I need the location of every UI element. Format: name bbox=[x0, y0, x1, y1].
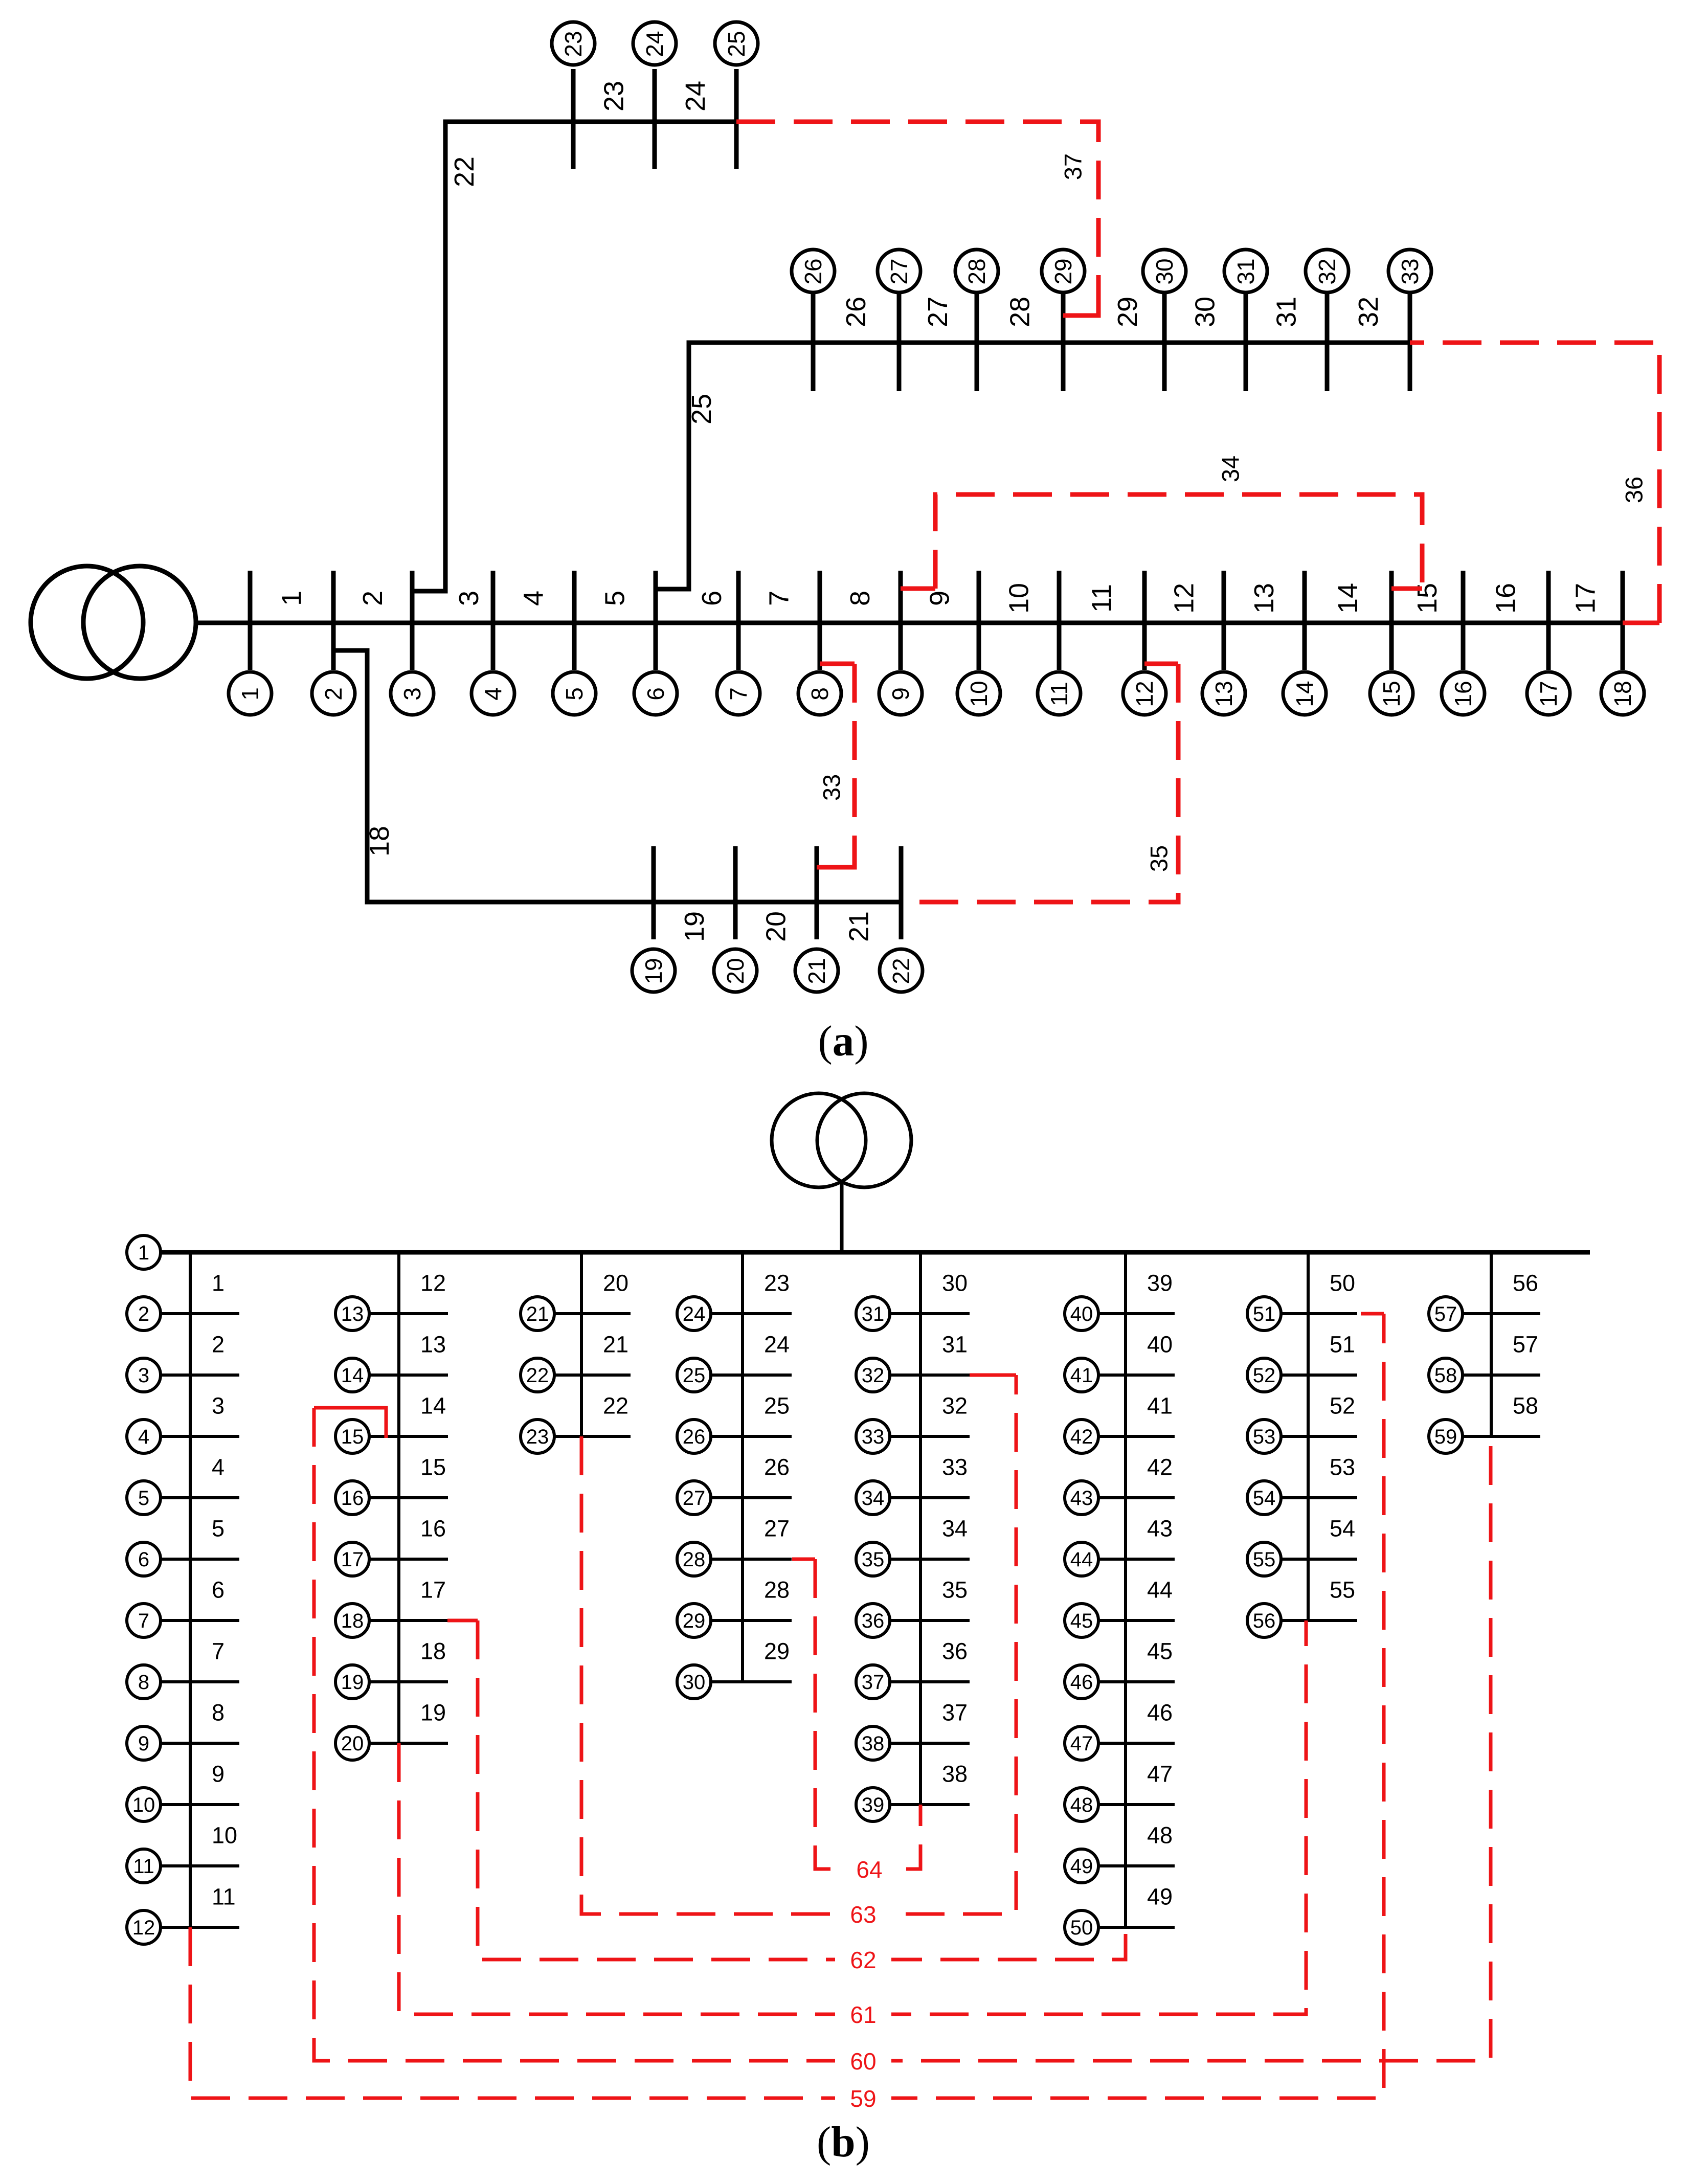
bus 39 tick bbox=[889, 1803, 970, 1806]
svg-text:32: 32 bbox=[942, 1393, 968, 1419]
svg-text:3: 3 bbox=[454, 591, 484, 606]
svg-text:20: 20 bbox=[722, 958, 749, 984]
svg-text:22: 22 bbox=[888, 958, 914, 984]
bus 28 circle bbox=[955, 250, 998, 292]
bus 53 tick bbox=[1281, 1435, 1357, 1438]
bus 26 circle bbox=[792, 250, 835, 292]
bus 29 circle bbox=[1042, 250, 1085, 292]
bus 23 tick bbox=[571, 69, 576, 169]
transformer T2 (part b) bbox=[772, 1093, 866, 1187]
svg-text:52: 52 bbox=[1330, 1393, 1355, 1419]
feeder vertical (buses 57-59) bbox=[1490, 1252, 1493, 1436]
svg-text:3: 3 bbox=[138, 1364, 149, 1387]
bus 23 tick bbox=[554, 1435, 631, 1438]
svg-text:12: 12 bbox=[132, 1917, 155, 1939]
svg-text:16: 16 bbox=[341, 1487, 364, 1510]
bus 17 circle bbox=[1527, 672, 1570, 715]
svg-text:11: 11 bbox=[133, 1855, 154, 1878]
bus 11 tick bbox=[160, 1864, 239, 1867]
svg-text:26: 26 bbox=[764, 1454, 790, 1480]
bus 12 tick bbox=[160, 1926, 239, 1929]
svg-text:43: 43 bbox=[1070, 1487, 1093, 1510]
svg-text:33: 33 bbox=[818, 774, 845, 801]
svg-text:31: 31 bbox=[1271, 297, 1302, 327]
bus 9 circle bbox=[127, 1726, 161, 1760]
svg-text:30: 30 bbox=[1151, 258, 1178, 284]
bus 16 circle bbox=[335, 1481, 369, 1515]
svg-text:1: 1 bbox=[212, 1270, 224, 1296]
bus 16 circle bbox=[1442, 672, 1485, 715]
bus 12 circle bbox=[1123, 672, 1166, 715]
bus 24 circle bbox=[677, 1297, 711, 1331]
svg-text:23: 23 bbox=[560, 31, 587, 57]
bus 31 circle bbox=[1224, 250, 1267, 292]
bus 4 circle bbox=[127, 1420, 161, 1453]
svg-text:44: 44 bbox=[1070, 1548, 1093, 1571]
bus 2 tick bbox=[160, 1312, 239, 1315]
bus 43 circle bbox=[1065, 1481, 1098, 1515]
tie line 35 dashed run bbox=[901, 664, 1178, 902]
main feeder line buses 1-18 bbox=[196, 621, 1623, 625]
svg-text:21: 21 bbox=[603, 1332, 628, 1358]
bus 18 tick bbox=[369, 1619, 448, 1622]
svg-text:18: 18 bbox=[420, 1638, 446, 1664]
bus 30 tick bbox=[710, 1680, 792, 1683]
bus 7 circle bbox=[127, 1604, 161, 1637]
svg-text:54: 54 bbox=[1253, 1487, 1276, 1510]
bus 36 circle bbox=[856, 1604, 890, 1637]
svg-text:18: 18 bbox=[341, 1610, 364, 1632]
svg-text:5: 5 bbox=[561, 687, 588, 701]
svg-text:1: 1 bbox=[237, 687, 263, 701]
feeder vertical (buses 51-56) bbox=[1307, 1252, 1310, 1620]
svg-text:7: 7 bbox=[764, 591, 795, 606]
svg-text:37: 37 bbox=[862, 1671, 885, 1694]
bus 41 circle bbox=[1065, 1358, 1098, 1392]
bus 34 tick bbox=[889, 1496, 970, 1499]
bus 2 circle bbox=[312, 672, 355, 715]
bus 55 circle bbox=[1247, 1542, 1281, 1576]
bus 3 tick bbox=[160, 1374, 239, 1377]
bus 19 circle bbox=[335, 1665, 369, 1699]
svg-text:22: 22 bbox=[526, 1364, 549, 1387]
bus 13 tick bbox=[1222, 571, 1226, 670]
bus 56 tick bbox=[1281, 1619, 1357, 1622]
bus 31 tick bbox=[1244, 291, 1248, 391]
bus 28 circle bbox=[677, 1542, 711, 1576]
bus 33 circle bbox=[1388, 250, 1431, 292]
bus 7 tick bbox=[160, 1619, 239, 1622]
bus 31 tick bbox=[889, 1312, 970, 1315]
bus 20 tick bbox=[733, 846, 738, 939]
svg-text:6: 6 bbox=[138, 1548, 149, 1571]
svg-text:17: 17 bbox=[1570, 583, 1601, 614]
bus 22 tick bbox=[899, 846, 904, 939]
svg-text:58: 58 bbox=[1513, 1393, 1538, 1419]
svg-text:10: 10 bbox=[212, 1822, 237, 1849]
bus 59 circle bbox=[1429, 1420, 1463, 1453]
tie line 62 stub at bus 18 bbox=[447, 1619, 478, 1623]
feeder vertical (buses 24-30) bbox=[741, 1252, 744, 1682]
bus 13 circle bbox=[335, 1297, 369, 1331]
svg-text:7: 7 bbox=[138, 1610, 149, 1632]
bus 19 circle bbox=[632, 949, 675, 992]
svg-text:8: 8 bbox=[806, 687, 833, 701]
bus 32 tick bbox=[1325, 291, 1330, 391]
bus 38 circle bbox=[856, 1726, 890, 1760]
bus 46 tick bbox=[1098, 1680, 1175, 1683]
branch 22 line bus3 to feeder 23-25 bbox=[412, 122, 736, 591]
bus 21 circle bbox=[795, 949, 838, 992]
svg-text:13: 13 bbox=[420, 1332, 446, 1358]
svg-text:52: 52 bbox=[1253, 1364, 1276, 1387]
svg-text:40: 40 bbox=[1070, 1303, 1093, 1325]
svg-text:64: 64 bbox=[856, 1856, 882, 1883]
svg-text:39: 39 bbox=[1147, 1270, 1173, 1296]
bus 8 circle bbox=[798, 672, 841, 715]
svg-text:6: 6 bbox=[642, 687, 669, 701]
bus 13 circle bbox=[1202, 672, 1245, 715]
svg-text:24: 24 bbox=[641, 31, 668, 57]
bus 4 circle bbox=[471, 672, 514, 715]
svg-text:42: 42 bbox=[1070, 1426, 1093, 1448]
svg-text:11: 11 bbox=[212, 1884, 236, 1910]
bus 5 circle bbox=[553, 672, 596, 715]
svg-text:8: 8 bbox=[138, 1671, 149, 1694]
bus 18 circle bbox=[1601, 672, 1644, 715]
tie 60 label bbox=[835, 2046, 891, 2075]
svg-text:30: 30 bbox=[1190, 297, 1221, 327]
tie line 33 stub at bus 21 bbox=[817, 849, 855, 867]
svg-text:47: 47 bbox=[1147, 1761, 1173, 1787]
svg-text:49: 49 bbox=[1147, 1884, 1173, 1910]
bus 45 circle bbox=[1065, 1604, 1098, 1637]
bus 9 tick bbox=[899, 571, 903, 670]
bus 52 circle bbox=[1247, 1358, 1281, 1392]
bus 16 tick bbox=[369, 1496, 448, 1499]
svg-text:38: 38 bbox=[942, 1761, 968, 1787]
svg-text:1: 1 bbox=[277, 591, 307, 606]
bus 41 tick bbox=[1098, 1374, 1175, 1377]
bus 33 tick bbox=[1408, 291, 1412, 391]
bus 10 circle bbox=[957, 672, 1000, 715]
svg-text:21: 21 bbox=[844, 911, 874, 942]
bus 21 tick bbox=[815, 846, 819, 939]
svg-text:19: 19 bbox=[341, 1671, 364, 1694]
bus 18 circle bbox=[335, 1604, 369, 1637]
tie line 36 stub at bus 18 bbox=[1623, 621, 1659, 625]
svg-text:57: 57 bbox=[1513, 1332, 1538, 1358]
tie line 59 stub at bus 51 bbox=[1361, 1312, 1384, 1316]
bus 23 circle bbox=[552, 22, 595, 65]
svg-text:32: 32 bbox=[862, 1364, 885, 1387]
bus 35 tick bbox=[889, 1558, 970, 1561]
svg-text:1: 1 bbox=[138, 1242, 149, 1264]
svg-text:41: 41 bbox=[1147, 1393, 1173, 1419]
svg-text:6: 6 bbox=[212, 1577, 224, 1603]
svg-text:31: 31 bbox=[862, 1303, 885, 1325]
bus 6 tick bbox=[654, 571, 658, 670]
svg-text:37: 37 bbox=[1060, 153, 1087, 180]
svg-text:14: 14 bbox=[420, 1393, 446, 1419]
svg-text:(b): (b) bbox=[817, 2118, 870, 2166]
tie 61 label bbox=[835, 2000, 891, 2029]
svg-text:33: 33 bbox=[942, 1454, 968, 1480]
svg-text:25: 25 bbox=[764, 1393, 790, 1419]
svg-text:2: 2 bbox=[320, 687, 347, 701]
svg-text:17: 17 bbox=[341, 1548, 364, 1571]
bus 28 tick bbox=[975, 291, 979, 391]
bus 25 circle bbox=[677, 1358, 711, 1392]
svg-text:8: 8 bbox=[212, 1700, 224, 1726]
bus 14 tick bbox=[1302, 571, 1307, 670]
svg-text:35: 35 bbox=[942, 1577, 968, 1603]
bus 1 tick bbox=[248, 571, 253, 670]
transformer stub (part b) bbox=[840, 1181, 844, 1252]
svg-text:4: 4 bbox=[212, 1454, 224, 1480]
bus 8 tick bbox=[818, 571, 822, 670]
svg-text:21: 21 bbox=[526, 1303, 549, 1325]
bus 1 circle bbox=[229, 672, 272, 715]
svg-text:16: 16 bbox=[1450, 681, 1476, 707]
bus 18 tick bbox=[1621, 571, 1625, 670]
svg-text:42: 42 bbox=[1147, 1454, 1173, 1480]
svg-text:33: 33 bbox=[1397, 258, 1423, 284]
bus 4 tick bbox=[491, 571, 496, 670]
bus 22 circle bbox=[880, 949, 923, 992]
bus 29 tick bbox=[1061, 291, 1066, 391]
svg-text:25: 25 bbox=[686, 394, 717, 424]
svg-text:56: 56 bbox=[1253, 1610, 1276, 1632]
bus 34 circle bbox=[856, 1481, 890, 1515]
bus 44 circle bbox=[1065, 1542, 1098, 1576]
bus 2 tick bbox=[331, 571, 336, 670]
svg-text:13: 13 bbox=[1210, 681, 1237, 707]
svg-text:27: 27 bbox=[764, 1516, 790, 1542]
bus 11 circle bbox=[1038, 672, 1081, 715]
tie 62 label bbox=[835, 1945, 891, 1974]
svg-text:63: 63 bbox=[850, 1901, 876, 1928]
feeder vertical (buses 40-50) bbox=[1124, 1252, 1127, 1927]
svg-text:50: 50 bbox=[1070, 1917, 1093, 1939]
svg-text:31: 31 bbox=[1232, 258, 1259, 284]
svg-text:44: 44 bbox=[1147, 1577, 1173, 1603]
svg-text:24: 24 bbox=[680, 81, 711, 111]
bus 56 circle bbox=[1247, 1604, 1281, 1637]
transformer T1 (part a) bbox=[31, 566, 143, 679]
feeder vertical (buses 13-20) bbox=[397, 1252, 400, 1743]
svg-text:57: 57 bbox=[1434, 1303, 1457, 1325]
svg-text:48: 48 bbox=[1147, 1822, 1173, 1849]
tie line 61 dashed run bbox=[399, 1620, 1306, 2014]
feeder vertical (buses 31-39) bbox=[919, 1252, 922, 1805]
bus 17 tick bbox=[1546, 571, 1551, 670]
bus 50 tick bbox=[1098, 1926, 1175, 1929]
bus 17 circle bbox=[335, 1542, 369, 1576]
bus 27 tick bbox=[710, 1496, 792, 1499]
tie line 59 dashed run bbox=[190, 1314, 1384, 2098]
svg-text:36: 36 bbox=[942, 1638, 968, 1664]
svg-text:24: 24 bbox=[683, 1303, 706, 1325]
svg-text:29: 29 bbox=[1112, 297, 1143, 327]
svg-text:36: 36 bbox=[1621, 477, 1648, 503]
svg-text:15: 15 bbox=[420, 1454, 446, 1480]
svg-text:36: 36 bbox=[862, 1610, 885, 1632]
bus 20 tick bbox=[369, 1742, 448, 1745]
bus 24 tick bbox=[710, 1312, 792, 1315]
svg-text:19: 19 bbox=[420, 1700, 446, 1726]
svg-text:12: 12 bbox=[1169, 583, 1200, 614]
svg-text:27: 27 bbox=[683, 1487, 706, 1510]
svg-text:4: 4 bbox=[480, 687, 506, 701]
bus 22 tick bbox=[554, 1374, 631, 1377]
bus 57 tick bbox=[1462, 1312, 1540, 1315]
bus 15 circle bbox=[335, 1420, 369, 1453]
bus 25 tick bbox=[734, 69, 739, 169]
bus 20 circle bbox=[335, 1726, 369, 1760]
bus 47 circle bbox=[1065, 1726, 1098, 1760]
svg-text:19: 19 bbox=[679, 911, 710, 942]
svg-text:37: 37 bbox=[942, 1700, 968, 1726]
tie 63 label bbox=[835, 1900, 891, 1928]
bus 3 tick bbox=[410, 571, 415, 670]
svg-text:17: 17 bbox=[1535, 681, 1562, 707]
svg-text:12: 12 bbox=[1131, 681, 1158, 707]
bus 32 circle bbox=[1306, 250, 1349, 292]
bus 6 tick bbox=[160, 1558, 239, 1561]
bus 48 tick bbox=[1098, 1803, 1175, 1806]
svg-text:(a): (a) bbox=[818, 1017, 868, 1065]
tie line 35 stub at bus 12 bbox=[1144, 662, 1178, 666]
svg-text:51: 51 bbox=[1253, 1303, 1276, 1325]
svg-text:9: 9 bbox=[925, 591, 955, 606]
bus 22 circle bbox=[521, 1358, 554, 1392]
svg-text:34: 34 bbox=[1217, 456, 1244, 482]
svg-text:9: 9 bbox=[887, 687, 914, 701]
tie line 64 stub at bus 28 bbox=[792, 1558, 815, 1561]
bus 4 tick bbox=[160, 1435, 239, 1438]
svg-text:18: 18 bbox=[364, 826, 395, 857]
svg-text:11: 11 bbox=[1087, 584, 1117, 613]
bus 5 tick bbox=[160, 1496, 239, 1499]
bus 10 circle bbox=[127, 1788, 161, 1821]
svg-text:28: 28 bbox=[683, 1548, 706, 1571]
svg-text:38: 38 bbox=[862, 1732, 885, 1755]
svg-text:29: 29 bbox=[764, 1638, 790, 1664]
svg-text:3: 3 bbox=[399, 687, 425, 701]
svg-text:47: 47 bbox=[1070, 1732, 1093, 1755]
bus 35 circle bbox=[856, 1542, 890, 1576]
svg-text:55: 55 bbox=[1253, 1548, 1276, 1571]
bus 54 tick bbox=[1281, 1496, 1357, 1499]
svg-text:55: 55 bbox=[1330, 1577, 1355, 1603]
bus 48 circle bbox=[1065, 1788, 1098, 1821]
bus 27 tick bbox=[897, 291, 902, 391]
svg-text:20: 20 bbox=[341, 1732, 364, 1755]
svg-text:25: 25 bbox=[723, 31, 750, 57]
svg-text:23: 23 bbox=[599, 81, 630, 111]
svg-text:2: 2 bbox=[212, 1332, 224, 1358]
bus 9 tick bbox=[160, 1742, 239, 1745]
svg-text:56: 56 bbox=[1513, 1270, 1538, 1296]
bus 38 tick bbox=[889, 1742, 970, 1745]
bus 11 tick bbox=[1057, 571, 1062, 670]
bus 45 tick bbox=[1098, 1619, 1175, 1622]
tie line 63 dashed run bbox=[581, 1375, 1016, 1914]
bus 10 tick bbox=[160, 1803, 239, 1806]
bus 47 tick bbox=[1098, 1742, 1175, 1745]
svg-text:14: 14 bbox=[341, 1364, 364, 1387]
tie line 33 stub at bus 8 bbox=[820, 662, 855, 666]
svg-text:33: 33 bbox=[862, 1426, 885, 1448]
svg-text:17: 17 bbox=[420, 1577, 446, 1603]
bus 29 circle bbox=[677, 1604, 711, 1637]
svg-text:41: 41 bbox=[1070, 1364, 1093, 1387]
svg-text:2: 2 bbox=[138, 1303, 149, 1325]
tie line 36 dashed run bbox=[1410, 343, 1659, 623]
svg-text:18: 18 bbox=[1609, 681, 1636, 707]
svg-text:15: 15 bbox=[1378, 681, 1405, 707]
svg-text:46: 46 bbox=[1147, 1700, 1173, 1726]
svg-text:40: 40 bbox=[1147, 1332, 1173, 1358]
bus 55 tick bbox=[1281, 1558, 1357, 1561]
bus 25 circle bbox=[715, 22, 758, 65]
bus 40 tick bbox=[1098, 1312, 1175, 1315]
svg-text:4: 4 bbox=[138, 1426, 149, 1448]
bus 25 tick bbox=[710, 1374, 792, 1377]
bus 15 tick bbox=[369, 1435, 448, 1438]
svg-text:60: 60 bbox=[850, 2048, 876, 2075]
bus 50 circle bbox=[1065, 1910, 1098, 1944]
svg-text:5: 5 bbox=[138, 1487, 149, 1510]
svg-text:24: 24 bbox=[764, 1332, 790, 1358]
bus 13 tick bbox=[369, 1312, 448, 1315]
svg-text:9: 9 bbox=[138, 1732, 149, 1755]
svg-text:25: 25 bbox=[683, 1364, 706, 1387]
bus 30 tick bbox=[1162, 291, 1167, 391]
svg-text:28: 28 bbox=[1005, 297, 1036, 327]
bus 14 circle bbox=[1283, 672, 1326, 715]
bus 2 circle bbox=[127, 1297, 161, 1331]
bus 32 circle bbox=[856, 1358, 890, 1392]
bus 19 tick bbox=[369, 1680, 448, 1683]
bus 3 circle bbox=[391, 672, 434, 715]
svg-text:45: 45 bbox=[1070, 1610, 1093, 1632]
svg-text:26: 26 bbox=[800, 258, 826, 284]
tie line 60 stub at bus 15 bbox=[314, 1408, 386, 1438]
bus 11 circle bbox=[127, 1849, 161, 1883]
svg-text:30: 30 bbox=[683, 1671, 706, 1694]
bus 24 tick bbox=[653, 69, 657, 169]
bus 3 circle bbox=[127, 1358, 161, 1392]
bus 7 tick bbox=[736, 571, 741, 670]
svg-text:16: 16 bbox=[1491, 583, 1521, 614]
svg-text:49: 49 bbox=[1070, 1855, 1093, 1878]
bus 27 circle bbox=[677, 1481, 711, 1515]
svg-text:30: 30 bbox=[942, 1270, 968, 1296]
bus 8 circle bbox=[127, 1665, 161, 1699]
svg-text:6: 6 bbox=[697, 591, 727, 606]
tie line 37 dashed run bus25 to bus29 bbox=[736, 122, 1098, 307]
bus 16 tick bbox=[1461, 571, 1466, 670]
svg-text:9: 9 bbox=[212, 1761, 224, 1787]
bus 20 circle bbox=[714, 949, 757, 992]
bus 26 tick bbox=[710, 1435, 792, 1438]
bus 15 tick bbox=[1389, 571, 1394, 670]
bus 14 circle bbox=[335, 1358, 369, 1392]
svg-text:54: 54 bbox=[1330, 1516, 1355, 1542]
bus 6 circle bbox=[634, 672, 677, 715]
